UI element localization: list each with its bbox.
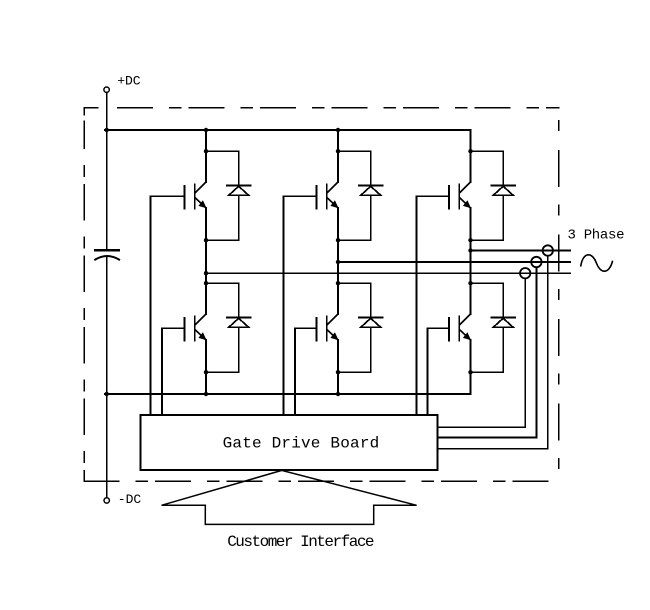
wire phase W sense to board [438, 448, 548, 450]
node Q4/D4 split [204, 281, 208, 285]
transistor Q2 collector stroke [327, 182, 338, 193]
node Q1/D1 split [204, 149, 208, 153]
wire Q5 gate to drive board [294, 328, 296, 415]
wire +DC terminal to capacitor top [106, 92, 108, 249]
wire leg 2 phase to Q5 collector [337, 283, 339, 314]
svg-text:+DC: +DC [117, 74, 141, 89]
capacitor C1 top plate [95, 249, 119, 251]
wire Q6 gate to drive board [427, 328, 429, 415]
transistor Q3 emitter stroke [460, 198, 471, 208]
diode D2 triangle [361, 186, 381, 195]
wire phase V sense drop [535, 267, 537, 437]
transistor Q1 emitter stroke [195, 198, 206, 208]
transistor Q3 emitter arrow [463, 200, 471, 208]
transistor Q6 collector stroke [460, 314, 471, 325]
wire capacitor bottom to -DC terminal [106, 256, 108, 498]
transistor Q5 emitter arrow [330, 332, 338, 340]
terminal phase U sensor ring [520, 268, 530, 278]
transistor Q6 emitter stroke [460, 330, 471, 340]
transistor Q3 gate bar [448, 186, 450, 209]
wire Q1 gate to drive board [150, 196, 152, 415]
wire D4 cathode branch [206, 283, 239, 317]
node leg 1 -bus junction [204, 392, 208, 396]
wire Q3 emitter down [470, 208, 472, 314]
diode D5 cathode bar [359, 316, 382, 318]
node Q4/D4 join [204, 370, 208, 374]
diode D6 cathode bar [492, 316, 515, 318]
diode D1 triangle [229, 186, 249, 195]
module enclosure dashed outline left edge [83, 108, 85, 115]
AC sine symbol [581, 255, 613, 271]
transistor Q1 body bar [194, 185, 196, 209]
wire D6 cathode branch [471, 283, 504, 317]
module enclosure dashed outline bottom edge [84, 480, 559, 482]
transistor Q4 emitter arrow [198, 332, 206, 340]
wire phase U output [206, 272, 570, 274]
svg-text:Gate Drive Board: Gate Drive Board [223, 435, 380, 453]
module enclosure dashed outline top edge [84, 107, 98, 109]
diode D3 cathode bar [492, 184, 515, 186]
svg-text:Customer Interface: Customer Interface [227, 533, 374, 551]
node Q1/D1 join [204, 238, 208, 242]
wire phase W sense drop [547, 256, 549, 449]
wire Q5 emitter down [337, 340, 339, 394]
wire D5 cathode branch [338, 283, 371, 317]
wire D3 cathode branch [471, 151, 504, 185]
wire +DC bus [105, 129, 471, 131]
node leg 2 +bus junction [336, 128, 340, 132]
terminal +DC [104, 87, 109, 92]
node +DC bus junction [105, 128, 109, 132]
module enclosure dashed outline right edge [558, 108, 560, 482]
transistor Q2 emitter arrow [330, 200, 338, 208]
wire leg 2 bus to Q2 collector [337, 130, 339, 182]
transistor Q6 emitter arrow [463, 332, 471, 340]
node Q6/D6 join [468, 370, 472, 374]
capacitor C1 curved plate [95, 256, 119, 260]
transistor Q1 gate bar [183, 186, 185, 209]
node Q5/D5 split [336, 281, 340, 285]
wire D1 anode branch [206, 195, 239, 240]
wire D1 cathode branch [206, 151, 239, 185]
wire D4 anode branch [206, 327, 239, 372]
node leg 1 +bus junction [204, 128, 208, 132]
transistor Q4 collector stroke [195, 314, 206, 325]
terminal phase W sensor ring [543, 245, 553, 255]
wire leg 3 phase to Q6 collector [470, 283, 472, 314]
transistor Q4 body bar [194, 317, 196, 341]
wire Q2 emitter down [337, 208, 339, 314]
customer interface arrow [162, 470, 417, 524]
wire D6 anode branch [471, 327, 504, 372]
wire leg 1 phase to Q4 collector [205, 283, 207, 314]
node Q3/D3 split [468, 149, 472, 153]
wire Q3 gate lead [417, 195, 449, 197]
wire D2 anode branch [338, 195, 371, 240]
wire D3 anode branch [471, 195, 504, 240]
wire Q2 gate to drive board [283, 196, 285, 415]
wire leg 3 bus to Q3 collector [470, 130, 472, 182]
wire Q6 gate lead [428, 327, 449, 329]
transistor Q6 gate bar [448, 318, 450, 341]
node Q5/D5 join [336, 370, 340, 374]
wire -DC bus [105, 393, 471, 395]
node phase W tap [468, 248, 472, 252]
wire Q6 emitter down [470, 340, 472, 394]
wire phase V sense to board [438, 436, 537, 438]
wire Q2 gate lead [284, 195, 317, 197]
wire phase W output [471, 250, 571, 252]
wire Q5 gate lead [295, 327, 316, 329]
diode D1 cathode bar [227, 184, 250, 186]
wire Q1 emitter down [205, 208, 207, 314]
transistor Q4 emitter stroke [195, 330, 206, 340]
node phase V tap [336, 260, 340, 264]
transistor Q5 body bar [326, 317, 328, 341]
wire phase U sense to board [438, 426, 526, 428]
node Q2/D2 join [336, 238, 340, 242]
transistor Q6 body bar [458, 317, 460, 341]
wire D2 cathode branch [338, 151, 371, 185]
wire leg 1 bus to Q1 collector [205, 130, 207, 182]
wire Q1 gate lead [151, 195, 185, 197]
svg-text:3 Phase: 3 Phase [568, 227, 625, 243]
node leg 2 -bus junction [336, 392, 340, 396]
wire Q3 gate to drive board [416, 196, 418, 415]
transistor Q5 emitter stroke [327, 330, 338, 340]
wire Q4 gate lead [162, 327, 184, 329]
node Q2/D2 split [336, 149, 340, 153]
transistor Q5 collector stroke [327, 314, 338, 325]
transistor Q2 emitter stroke [327, 198, 338, 208]
diode D5 triangle [361, 318, 381, 327]
transistor Q4 gate bar [183, 318, 185, 341]
wire Q4 gate to drive board [161, 328, 163, 415]
wire D5 anode branch [338, 327, 371, 372]
wire Q4 emitter down [205, 340, 207, 394]
transistor Q5 gate bar [315, 318, 317, 341]
diode D3 triangle [493, 186, 513, 195]
diode D4 triangle [229, 318, 249, 327]
transistor Q2 body bar [326, 185, 328, 209]
transistor Q3 collector stroke [460, 182, 471, 193]
transistor Q2 gate bar [315, 186, 317, 209]
svg-text:-DC: -DC [118, 492, 142, 507]
terminal -DC [104, 498, 109, 503]
node -DC bus junction [105, 392, 109, 396]
terminal phase V sensor ring [531, 257, 541, 267]
node Q3/D3 join [468, 238, 472, 242]
transistor Q1 emitter arrow [198, 200, 206, 208]
diode D2 cathode bar [359, 184, 382, 186]
wire phase U sense drop [524, 278, 526, 427]
gate drive board U1 [141, 415, 438, 470]
node Q6/D6 split [468, 281, 472, 285]
wire phase V output [338, 261, 570, 263]
diode D4 cathode bar [227, 316, 250, 318]
diode D6 triangle [493, 318, 513, 327]
node phase U tap [204, 271, 208, 275]
transistor Q3 body bar [458, 185, 460, 209]
transistor Q1 collector stroke [195, 182, 206, 193]
